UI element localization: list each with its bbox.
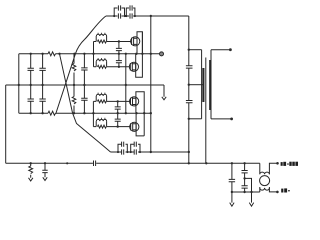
ground arrow mid bus right: [162, 85, 166, 100]
capacitor C1 on rail x=30.7: [28, 54, 34, 113]
resistor R1 in bus1: [48, 52, 55, 56]
wire transformer center tap: [189, 84, 204, 86]
wire transformer primary top feed: [189, 49, 202, 51]
wire psu lower rail y=192: [232, 191, 260, 193]
capacitor C11 gate row4: [115, 113, 121, 126]
wire gate rail group1 x=93.5: [93, 42, 95, 67]
label B-: [281, 188, 290, 192]
wire secondary top lead to terminal: [211, 49, 230, 51]
wire lamp bottom left leg: [259, 187, 261, 192]
wire lamp top right leg to +B terminal: [269, 163, 277, 174]
ground arrow psu right: [249, 203, 253, 207]
inductor L1 with resistor R5 row1: [94, 33, 132, 43]
wire bus2 mid y=85: [6, 84, 164, 86]
inductor L4 with resistor R8 row4: [93, 118, 131, 128]
capacitor C3 rail x=84.4: [81, 54, 87, 113]
capacitor C15 on right rail lower: [186, 101, 193, 103]
diagonal cross wire B: [60, 54, 111, 152]
capacitor C13 series in ground bus: [94, 161, 96, 167]
wire lamp top left leg: [259, 163, 261, 174]
wire top line y=16.5: [106, 15, 189, 17]
wire psu branch to drop: [245, 178, 252, 202]
transistor Q3 mosfet row3: [130, 97, 139, 106]
transformer T1 secondary winding: [209, 60, 211, 110]
lamp LP1 ballast circle: [260, 176, 270, 186]
resistor R2 in bus3: [48, 111, 55, 115]
inductor L3 with resistor R7 row3: [93, 93, 129, 103]
resistor R9 to ground left: [29, 163, 33, 181]
wire bottom chain line y=152.4: [111, 151, 151, 153]
capacitor C2 on rail x=42.6: [39, 54, 45, 113]
wire lamp bottom right leg to B- terminal: [269, 187, 277, 192]
transistor Q4 mosfet row4: [130, 122, 139, 131]
capacitor C5 parallel pair unit top-right: [126, 5, 135, 18]
wire rail x=18.8: [18, 54, 20, 113]
wire secondary rail: [210, 50, 212, 119]
lamp bottom filament arcs: [260, 188, 270, 190]
wire feedback left vertical: [5, 85, 7, 163]
wire bus1 gate/source bus top y=53.8: [19, 53, 159, 55]
transformer T1 primary winding: [202, 68, 204, 102]
capacitor C7 parallel pair unit bottom-right: [131, 142, 140, 155]
lamp top filament arcs: [260, 172, 270, 174]
capacitor C12 to ground left: [42, 163, 47, 180]
wire right rail x=188.8: [188, 16, 190, 163]
wire Q4 drain up: [135, 113, 137, 130]
wire Q2 source hairpin: [136, 32, 143, 77]
wire Q2 drain up: [135, 54, 137, 71]
inductor L2 with resistor R6 row2: [94, 58, 130, 68]
wire transformer primary bottom feed: [189, 118, 202, 120]
wire Q4 source hairpin: [136, 123, 144, 136]
node output terminal circle: [160, 52, 164, 56]
capacitor C4 parallel pair unit top-left: [114, 5, 124, 18]
resistor R3 R4 rail x=74: [72, 54, 76, 113]
wire transformer primary rail: [201, 50, 203, 119]
wire secondary bottom lead to terminal: [211, 118, 232, 120]
wire Q1 source down: [136, 38, 138, 54]
capacitor C6 parallel pair unit bottom-left: [118, 142, 127, 155]
transistor Q2 mosfet row2: [129, 62, 138, 71]
label +B +350: [281, 162, 298, 166]
wire y=152.4 to right rail: [151, 151, 189, 153]
wire bus3 y=113.2: [19, 112, 151, 114]
wire Q1 drain hairpin: [137, 32, 142, 54]
capacitor C17 C18 psu string x=244.6: [242, 163, 248, 192]
capacitor C14 on right rail upper: [186, 66, 193, 68]
wire gate rail group2 x=93.4: [92, 101, 94, 126]
capacitor C9 gate row2: [116, 54, 122, 67]
capacitor C8 gate row1: [116, 42, 122, 54]
wire rail x=125.8: [125, 54, 127, 113]
transformer T1 core and B+ drop wire: [205, 58, 207, 164]
wire rail x=150.8: [150, 16, 152, 152]
wire Q3 drain hairpin: [136, 92, 144, 136]
wire ground bus bottom y=163.3: [6, 162, 260, 164]
ground arrow psu left: [230, 203, 234, 207]
capacitor C16 psu string x=232: [229, 163, 235, 202]
wire Q3 source down: [135, 98, 137, 114]
transistor Q1 mosfet row1: [131, 37, 140, 46]
capacitor C10 gate row3: [115, 101, 121, 113]
diagonal cross wire A: [56, 16, 106, 114]
